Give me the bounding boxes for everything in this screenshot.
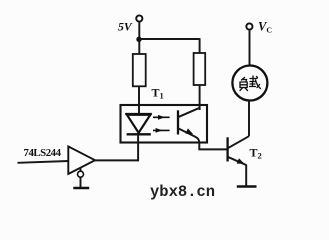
- terminal 5V: [136, 15, 142, 21]
- junction dot: [136, 37, 141, 42]
- wire buffer output to LED cathode: [95, 159, 139, 161]
- 载: [250, 76, 257, 81]
- phototransistor Q1 emitter: [178, 128, 199, 149]
- phototransistor Q1 emitter arrow: [185, 128, 193, 134]
- LED D1 anode bar: [125, 113, 152, 115]
- phototransistor Q1 collector: [178, 108, 200, 117]
- svg-text:5V: 5V: [118, 20, 133, 34]
- wire 5V terminal to junction: [138, 22, 140, 55]
- resistor R1: [133, 54, 146, 86]
- transistor T2 emitter: [228, 157, 247, 165]
- buffer U2 enable stub: [80, 167, 82, 171]
- transistor T2 collector: [228, 136, 249, 148]
- load (circle): [232, 66, 267, 101]
- wire bubble to ground: [80, 177, 82, 187]
- light arrow lower: [153, 128, 170, 133]
- ground (T2): [237, 185, 257, 188]
- transistor T2 emitter arrow: [237, 158, 245, 164]
- wire R2 bottom into box: [199, 85, 201, 110]
- svg-text:74LS244: 74LS244: [24, 147, 62, 159]
- wire T2 emitter down: [245, 165, 247, 187]
- svg-text:ybx8.cn: ybx8.cn: [150, 183, 215, 201]
- buffer U2 input wire: [18, 161, 69, 163]
- wire R1 bottom to LED anode: [138, 86, 140, 114]
- LED D1 triangle: [127, 115, 150, 133]
- ground (buffer): [73, 187, 89, 190]
- buffer U2 enable bubble: [78, 171, 84, 177]
- 负: [242, 78, 245, 81]
- LED D1 cathode bar: [127, 133, 151, 135]
- transistor T2 base bar: [226, 137, 228, 161]
- wire load to T2 collector: [248, 101, 250, 137]
- resistor R2: [194, 53, 206, 85]
- wire LED cathode down: [137, 134, 139, 161]
- light arrow upper: [153, 115, 170, 120]
- phototransistor Q1 base bar: [177, 110, 179, 134]
- wire down to R2: [199, 38, 201, 53]
- optocoupler U1 box: [121, 105, 208, 143]
- terminal VC: [246, 23, 252, 29]
- wire top horizontal: [139, 38, 200, 40]
- load text 负载: [240, 76, 261, 91]
- wire VC to load: [249, 30, 251, 66]
- wire to T2 base: [198, 148, 227, 150]
- buffer U2 triangle: [68, 146, 95, 174]
